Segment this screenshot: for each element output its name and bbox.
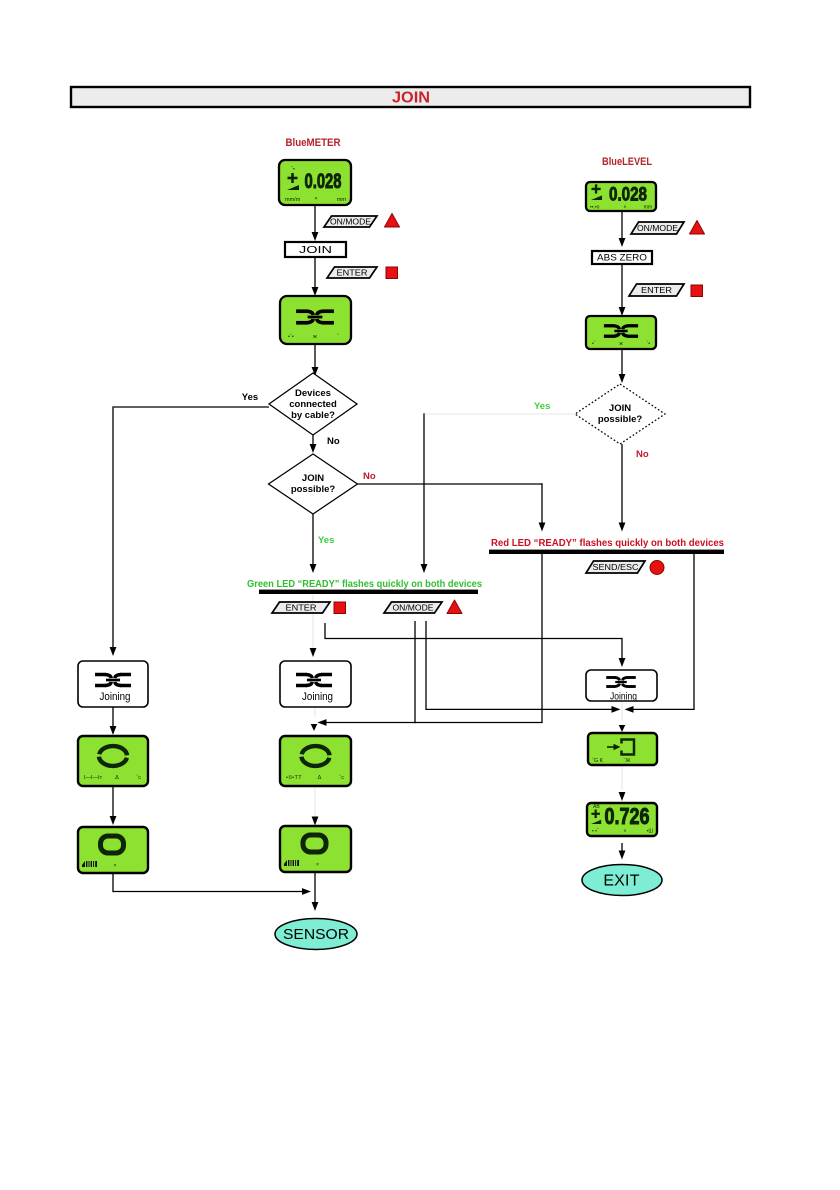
svg-text:•Ш: •Ш	[647, 829, 654, 835]
svg-text:ˇG К: ˇG К	[592, 758, 604, 764]
svg-text:ˇc: ˇc	[136, 775, 141, 781]
svg-text:Yes: Yes	[534, 401, 550, 412]
svg-text:••.•o: ••.•o	[590, 205, 600, 211]
svg-text:•ΙΙ•ΤΤ: •ΙΙ•ΤΤ	[286, 775, 302, 781]
svg-text:ˇЖ: ˇЖ	[624, 758, 631, 764]
svg-text:ON/MODE: ON/MODE	[393, 603, 434, 612]
svg-text:ON/MODE: ON/MODE	[637, 224, 678, 233]
svg-text:0.028: 0.028	[609, 185, 647, 206]
svg-text:mm: mm	[337, 197, 347, 203]
svg-text:JOIN: JOIN	[302, 473, 324, 484]
svg-text:Joining: Joining	[100, 691, 131, 703]
svg-text:Joining: Joining	[610, 692, 637, 703]
svg-text:×: ×	[316, 862, 319, 868]
svg-text:EXIT: EXIT	[603, 873, 639, 890]
svg-text:JOIN: JOIN	[392, 90, 430, 107]
svg-text:×: ×	[314, 196, 317, 202]
svg-text:AB: AB	[593, 804, 600, 810]
svg-text:JOIN: JOIN	[299, 244, 332, 256]
svg-text:No: No	[636, 449, 649, 460]
svg-text:ON/MODE: ON/MODE	[330, 217, 371, 226]
svg-text:BlueMETER: BlueMETER	[286, 137, 341, 149]
svg-text:ENTER: ENTER	[337, 268, 368, 277]
svg-text:Δ: Δ	[115, 775, 119, 781]
svg-text:No: No	[363, 471, 376, 482]
svg-text:×: ×	[624, 205, 627, 211]
svg-text:ABS ZERO: ABS ZERO	[597, 253, 647, 263]
svg-text:mm: mm	[644, 205, 652, 211]
svg-text:Yes: Yes	[242, 392, 258, 403]
svg-text:ˇ•: ˇ•	[647, 341, 651, 347]
svg-text:ˇ: ˇ	[337, 334, 339, 340]
svg-text:SEND/ESC: SEND/ESC	[593, 563, 639, 572]
svg-text:possible?: possible?	[291, 484, 336, 495]
svg-text:mm/m: mm/m	[285, 197, 301, 203]
svg-text:possible?: possible?	[598, 414, 643, 425]
svg-text:0.028: 0.028	[305, 170, 342, 193]
svg-text:JOIN: JOIN	[609, 403, 631, 414]
svg-text:Green LED “READY” flashes quic: Green LED “READY” flashes quickly on bot…	[247, 579, 482, 590]
svg-text:Joining: Joining	[302, 691, 333, 703]
svg-text:No: No	[327, 436, 340, 447]
svg-text:0.726: 0.726	[605, 803, 650, 829]
svg-text:ˇc: ˇc	[339, 775, 344, 781]
svg-text:by cable?: by cable?	[291, 410, 335, 421]
svg-text:• •ˇ: • •ˇ	[592, 829, 599, 835]
svg-text:•ˇ: •ˇ	[592, 341, 596, 347]
svg-text:ENTER: ENTER	[286, 603, 317, 612]
svg-text:Δ: Δ	[318, 775, 322, 781]
svg-text:Red LED “READY” flashes quickl: Red LED “READY” flashes quickly on both …	[491, 538, 724, 549]
svg-text:ж: ж	[313, 334, 317, 340]
svg-text:BlueLEVEL: BlueLEVEL	[602, 156, 652, 168]
svg-text:×: ×	[624, 829, 627, 835]
svg-text:connected: connected	[289, 399, 337, 410]
svg-text:•ˇ•: •ˇ•	[288, 334, 294, 340]
svg-text:ENTER: ENTER	[641, 286, 672, 295]
svg-text:SENSOR: SENSOR	[283, 926, 349, 943]
svg-text:ˇ•: ˇ•	[291, 167, 295, 173]
svg-text:Devices: Devices	[295, 388, 331, 399]
svg-text:Yes: Yes	[318, 535, 334, 546]
svg-text:Ι—Ι—Ιт: Ι—Ι—Ιт	[84, 775, 103, 781]
svg-text:×: ×	[113, 863, 116, 869]
